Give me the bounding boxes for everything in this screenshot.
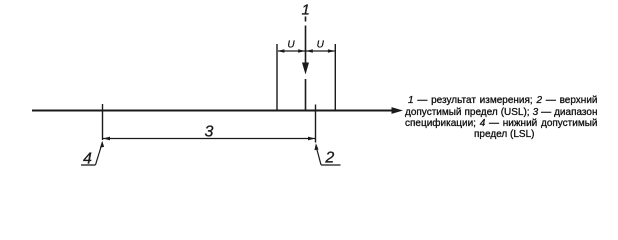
node 4: lower specification limit LSL tick <box>102 104 104 140</box>
svg-text:U: U <box>317 40 325 51</box>
leader of label 2 <box>314 143 321 165</box>
legend line 3 <box>405 118 598 129</box>
svg-text:3: 3 <box>205 124 214 141</box>
svg-text:U: U <box>287 40 295 51</box>
legend line 2 <box>405 107 598 118</box>
legend line 1 <box>405 95 598 106</box>
svg-text:1: 1 <box>302 2 310 19</box>
wire: horizontal measurement axis <box>32 107 403 114</box>
measurement result dashed vertical line (1) <box>305 17 307 112</box>
underline of label 2 <box>321 164 341 166</box>
svg-text:2: 2 <box>324 149 334 166</box>
node 2: upper specification limit USL tick <box>315 105 317 143</box>
leader of label 4 <box>96 141 105 165</box>
dimension line U right <box>306 49 335 53</box>
left uncertainty boundary line <box>276 44 278 111</box>
measurement result arrowhead <box>302 63 309 75</box>
legend line 4 <box>405 129 598 140</box>
legend text block <box>405 95 598 140</box>
dimension line 3: specification range <box>103 137 315 141</box>
dimension line U left <box>278 49 305 53</box>
right uncertainty boundary line <box>334 44 336 111</box>
underline of label 4 <box>81 164 96 166</box>
